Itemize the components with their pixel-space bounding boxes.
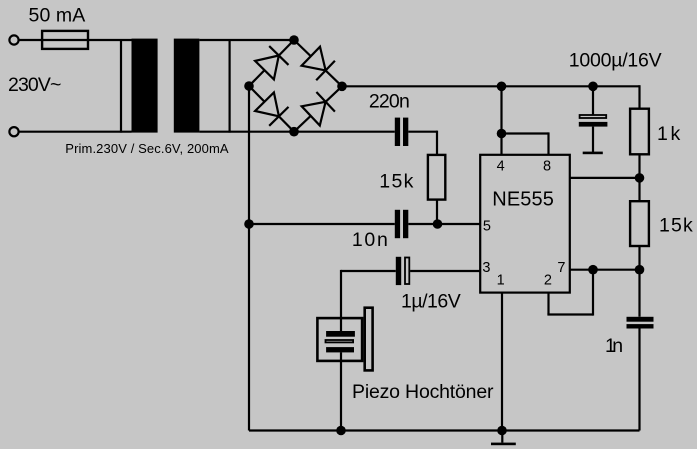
node: pin7 / pin2 loop junction bbox=[588, 265, 598, 275]
fuse F1 50 mA bbox=[42, 31, 88, 49]
label Prim.230V / Sec.6V, 200mA bbox=[65, 141, 229, 156]
node: bridge AC top bbox=[289, 35, 299, 45]
node: bridge AC bottom bbox=[289, 127, 299, 137]
label 1000u/16V bbox=[569, 50, 662, 72]
wire: bridge bottom to 220n bbox=[294, 131, 395, 133]
label 1n bbox=[605, 335, 623, 357]
svg-text:Piezo Hochtöner: Piezo Hochtöner bbox=[352, 381, 494, 403]
svg-text:5: 5 bbox=[483, 219, 491, 235]
node: pin1 / bottom rail / ground bbox=[497, 426, 507, 436]
node: R1 / pin5 junction bbox=[433, 219, 443, 229]
node: pin7 / discharge junction bbox=[635, 265, 645, 275]
diode D4 bbox=[302, 92, 335, 126]
wire: bridge edge bottom-right bbox=[294, 86, 342, 131]
wire: 1k to 15k bbox=[638, 154, 640, 200]
svg-text:2: 2 bbox=[544, 273, 552, 289]
wire: bridge edge left-top bbox=[249, 40, 294, 86]
node: left column / 10n junction bbox=[244, 219, 254, 229]
pin label 2 bbox=[544, 273, 552, 289]
svg-text:4: 4 bbox=[497, 159, 505, 175]
svg-text:8: 8 bbox=[543, 159, 551, 175]
wire: left minus column down to bottom rail bbox=[248, 86, 250, 431]
wire: transformer secondary top to bridge bbox=[199, 39, 294, 41]
wire: bottom ground rail bbox=[249, 429, 640, 431]
node: 1k/15k/pin6 junction bbox=[635, 173, 645, 183]
svg-text:NE555: NE555 bbox=[492, 189, 554, 211]
capacitor C1 1000u/16V electrolytic bbox=[579, 115, 608, 127]
diode D2 bbox=[302, 47, 335, 80]
node: bridge plus (right) bbox=[337, 82, 347, 92]
wire: pin 2 loop bbox=[547, 270, 593, 316]
wire: transformer secondary bottom to bridge bbox=[199, 131, 294, 133]
label 15k (R1) bbox=[379, 171, 413, 193]
svg-text:1: 1 bbox=[497, 273, 505, 289]
svg-text:7: 7 bbox=[557, 260, 565, 276]
transformer TR1 secondary core bar bbox=[174, 39, 200, 133]
node: V+ rail / pin4 bbox=[497, 82, 507, 92]
input terminal top bbox=[9, 35, 18, 44]
wire: V+ rail down to pin 4 bbox=[500, 86, 502, 155]
capacitor 220n bbox=[395, 118, 409, 146]
transformer TR1 primary core bar bbox=[132, 39, 158, 133]
wire: bridge edge left-bottom bbox=[249, 86, 294, 132]
svg-text:220n: 220n bbox=[369, 91, 410, 113]
svg-text:15k: 15k bbox=[379, 171, 413, 193]
diode D1 bbox=[255, 46, 288, 79]
pin label 3 bbox=[482, 260, 490, 276]
ground symbol bottom bbox=[491, 431, 516, 446]
capacitor C4 1n bbox=[627, 317, 654, 329]
input terminal bottom bbox=[9, 127, 18, 136]
pin label 5 bbox=[483, 219, 491, 235]
wire: V+ rail down to 1000u cap bbox=[592, 86, 594, 114]
wire: pin 7 to junction bbox=[571, 269, 640, 271]
wire: pin 6 to 1k/15k junction bbox=[571, 177, 640, 179]
wire: piezo column to 1u cap bbox=[341, 270, 396, 272]
label 10n bbox=[352, 229, 388, 251]
svg-text:10n: 10n bbox=[352, 229, 388, 251]
node: piezo / bottom rail bbox=[336, 426, 346, 436]
wire: V+ rail from bridge to 1k corner bbox=[342, 85, 640, 87]
wire: R1 bottom to pin5 net bbox=[436, 199, 438, 225]
wire: bottom terminal to transformer primary bbox=[19, 131, 132, 133]
wire: piezo to bottom rail bbox=[340, 352, 342, 430]
pin label 7 bbox=[557, 260, 565, 276]
IC U1 NE555 body bbox=[480, 155, 570, 293]
label 15k (R3) bbox=[659, 215, 693, 237]
wire: left column to 10n bbox=[249, 223, 395, 225]
wire: top terminal to transformer primary bbox=[19, 39, 132, 41]
wire: 10n to pin 5 bbox=[408, 223, 479, 225]
node: bridge minus (left) bbox=[244, 81, 254, 91]
wire: 220n to 15k resistor bbox=[408, 131, 437, 156]
svg-text:15k: 15k bbox=[659, 215, 693, 237]
resistor R3 15k bbox=[630, 201, 649, 246]
label 230V~ bbox=[8, 74, 61, 96]
svg-text:1n: 1n bbox=[605, 335, 623, 357]
svg-text:230V~: 230V~ bbox=[8, 74, 61, 96]
wire: pin4 tie to pin 8 bbox=[502, 132, 549, 155]
wire: 1n down to bottom rail bbox=[638, 329, 640, 431]
wire: pin 1 down to bottom rail bbox=[501, 294, 503, 431]
wire: bridge edge top-right bbox=[294, 40, 342, 86]
svg-text:3: 3 bbox=[482, 260, 490, 276]
wire: down from 1u to piezo bbox=[340, 270, 342, 331]
wire: rail corner down to 1k bbox=[638, 85, 640, 108]
resistor R2 1k bbox=[630, 109, 649, 155]
node: pin4/pin8 tie bbox=[497, 129, 507, 139]
node: V+ rail / 1000u bbox=[588, 82, 598, 92]
capacitor C3 1u/16V electrolytic bbox=[396, 257, 410, 285]
resistor R1 15k bbox=[428, 155, 445, 200]
label NE555 bbox=[492, 189, 554, 211]
diode D3 bbox=[255, 93, 288, 126]
transformer TR1 secondary winding line bbox=[229, 39, 231, 133]
svg-text:50 mA: 50 mA bbox=[29, 5, 86, 27]
label 1k bbox=[657, 123, 680, 145]
svg-text:1000µ/16V: 1000µ/16V bbox=[569, 50, 662, 72]
wire: 1u cap to pin 3 bbox=[410, 270, 479, 272]
ground symbol under 1000u bbox=[583, 152, 603, 155]
piezo element plates bbox=[326, 331, 355, 352]
pin label 1 bbox=[497, 273, 505, 289]
wire: 1000u to ground bbox=[592, 127, 594, 152]
pin label 4 bbox=[497, 159, 505, 175]
pin label 8 bbox=[543, 159, 551, 175]
label 1u/16V bbox=[401, 291, 461, 313]
piezo tweeter housing bbox=[317, 308, 372, 371]
svg-text:Prim.230V / Sec.6V, 200mA: Prim.230V / Sec.6V, 200mA bbox=[65, 141, 229, 156]
label 50 mA bbox=[29, 5, 86, 27]
transformer TR1 primary winding line bbox=[120, 39, 122, 133]
svg-text:1µ/16V: 1µ/16V bbox=[401, 291, 461, 313]
label Piezo Hochtoener bbox=[352, 381, 494, 403]
label 220n bbox=[369, 91, 410, 113]
wire: 15k down through pin7 junction to 1n bbox=[638, 246, 640, 317]
capacitor 10n bbox=[395, 210, 409, 238]
